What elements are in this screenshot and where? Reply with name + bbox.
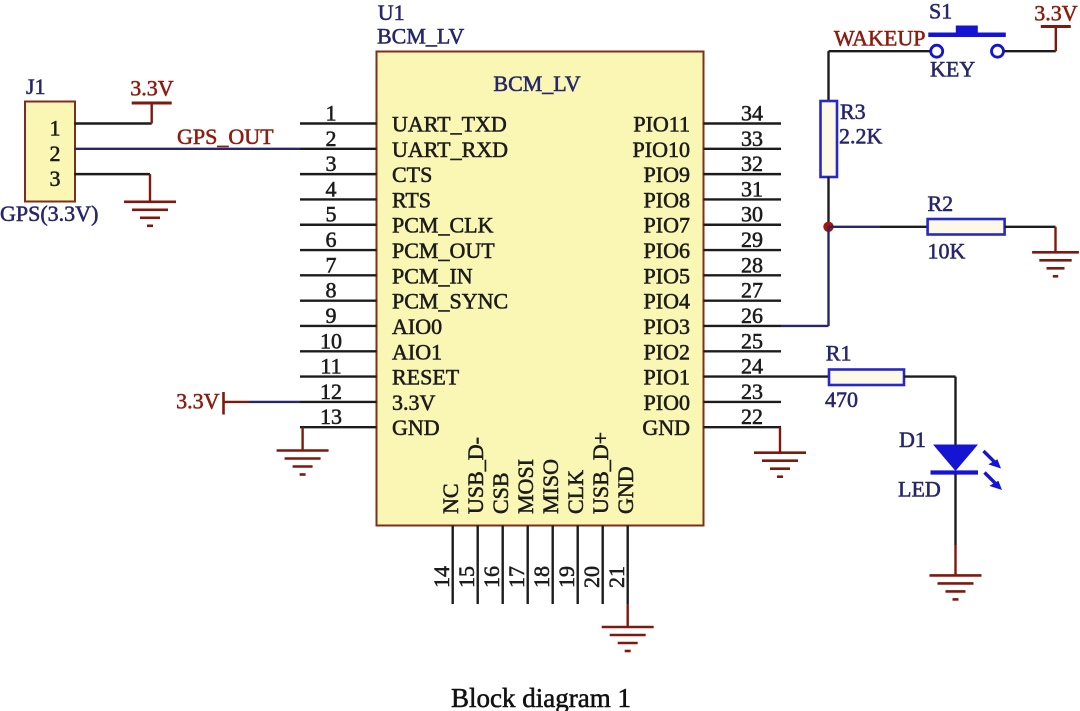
U1 pin 9 (AIO0) wire+number+name <box>300 303 442 339</box>
U1 pin 3 (CTS) wire+number+name <box>300 151 432 187</box>
net label 3.3V at S1 <box>1034 1 1078 26</box>
power symbol 3.3V at J1 <box>132 103 172 124</box>
svg-text:Block diagram 1: Block diagram 1 <box>451 683 631 711</box>
wire U1 pin22 down to ground <box>779 427 781 452</box>
svg-text:PIO11: PIO11 <box>633 112 690 137</box>
svg-text:PIO10: PIO10 <box>633 137 690 162</box>
svg-text:470: 470 <box>825 387 858 412</box>
wire R2 to ground <box>1005 227 1056 253</box>
resistor R3 value label 2.2K <box>839 124 883 149</box>
svg-text:25: 25 <box>741 328 763 353</box>
U1 pin 23 (PIO0) wire+number+name <box>644 379 781 415</box>
power symbol 3.3V at S1 <box>1041 25 1071 28</box>
svg-text:S1: S1 <box>929 0 952 24</box>
U1 pin 2 (UART_RXD) wire+number+name <box>300 126 508 162</box>
svg-text:UART_RXD: UART_RXD <box>392 137 508 162</box>
wire junction down to U1 pin26 (PIO3) <box>781 227 829 326</box>
svg-text:10: 10 <box>320 328 342 353</box>
U1 pin 15 (USB_D-) wire+number+name <box>454 437 488 604</box>
resistor R2 value label 10K <box>928 239 966 264</box>
svg-text:MISO: MISO <box>538 459 563 514</box>
svg-text:PIO6: PIO6 <box>644 238 690 263</box>
U1 pin 11 (RESET) wire+number+name <box>300 354 460 390</box>
wire U1 pin13 to ground <box>301 427 303 450</box>
svg-text:GND: GND <box>613 466 638 514</box>
svg-text:PCM_SYNC: PCM_SYNC <box>392 289 508 314</box>
wire J1 pin3 down to ground <box>149 174 151 202</box>
svg-text:18: 18 <box>529 566 554 588</box>
caption Block diagram 1 <box>451 683 631 711</box>
svg-text:2.2K: 2.2K <box>839 124 883 149</box>
svg-text:LED: LED <box>898 477 941 502</box>
svg-text:R2: R2 <box>928 191 954 216</box>
IC U1 body (BCM_LV) <box>377 52 704 526</box>
U1 pin 31 (PIO8) wire+number+name <box>644 176 781 212</box>
power symbol 3.3V at U1 pin12 <box>224 392 301 415</box>
svg-text:BCM_LV: BCM_LV <box>377 24 464 49</box>
svg-text:GPS(3.3V): GPS(3.3V) <box>0 201 98 226</box>
U1 pin 19 (CLK) wire+number+name <box>554 470 588 604</box>
net label 3.3V at U1 pin12 <box>176 389 220 414</box>
switch S1 symbol <box>928 26 1006 58</box>
U1 pin 25 (PIO2) wire+number+name <box>644 328 781 364</box>
U1 pin 16 (CSB) wire+number+name <box>479 472 513 604</box>
svg-text:15: 15 <box>454 566 479 588</box>
svg-text:22: 22 <box>741 404 763 429</box>
svg-text:RESET: RESET <box>392 365 460 390</box>
svg-text:30: 30 <box>741 202 763 227</box>
IC U1 internal title BCM_LV <box>493 71 580 96</box>
U1 pin 1 (UART_TXD) wire+number+name <box>300 101 507 137</box>
connector J1 pin 1 number <box>50 116 61 141</box>
svg-text:5: 5 <box>326 202 337 227</box>
switch S1 value label KEY <box>930 57 975 82</box>
U1 pin 14 (NC) wire+number+name <box>429 483 463 604</box>
U1 pin 6 (PCM_OUT) wire+number+name <box>300 227 495 263</box>
resistor R1 body <box>829 370 904 386</box>
wire WAKEUP down to R3 <box>827 51 829 101</box>
resistor R2 body <box>928 219 1005 235</box>
svg-text:PIO4: PIO4 <box>644 289 690 314</box>
connector J1 pin 2 number <box>50 141 61 166</box>
svg-text:3.3V: 3.3V <box>392 390 436 415</box>
svg-text:PCM_CLK: PCM_CLK <box>392 213 494 238</box>
svg-text:PCM_OUT: PCM_OUT <box>392 238 495 263</box>
resistor R3 body <box>821 101 838 177</box>
svg-text:27: 27 <box>741 278 763 303</box>
LED D1 refdes label <box>899 427 926 452</box>
svg-text:WAKEUP: WAKEUP <box>834 26 926 51</box>
U1 pin 7 (PCM_IN) wire+number+name <box>300 252 473 288</box>
U1 pin 20 (USB_D+) wire+number+name <box>579 432 613 604</box>
ground at J1 pin3 <box>124 202 176 226</box>
resistor R3 refdes label <box>840 99 866 124</box>
net label GPS_OUT <box>177 124 274 149</box>
U1 pin 22 (GND) wire+number+name <box>642 404 781 440</box>
svg-text:13: 13 <box>320 404 342 429</box>
ground at R2 <box>1032 252 1079 276</box>
svg-text:USB_D+: USB_D+ <box>588 432 613 514</box>
svg-text:PIO0: PIO0 <box>644 390 690 415</box>
IC U1 refdes label <box>378 0 405 25</box>
net label 3.3V at J1 <box>130 76 174 101</box>
svg-text:PIO9: PIO9 <box>644 162 690 187</box>
svg-text:NC: NC <box>438 483 463 514</box>
resistor R1 refdes label <box>826 341 852 366</box>
svg-text:R1: R1 <box>826 341 852 366</box>
svg-text:PIO7: PIO7 <box>644 213 690 238</box>
svg-text:9: 9 <box>326 303 337 328</box>
wire J1 pin1 to 3.3V power <box>74 122 151 124</box>
svg-text:1: 1 <box>50 116 61 141</box>
resistor R1 value label 470 <box>825 387 858 412</box>
ground at U1 pin21 <box>602 627 654 651</box>
svg-text:7: 7 <box>326 252 337 277</box>
svg-text:10K: 10K <box>928 239 966 264</box>
svg-text:23: 23 <box>741 379 763 404</box>
svg-text:34: 34 <box>741 101 763 126</box>
connector J1 pin 3 number <box>50 166 61 191</box>
wire J1 pin3 horizontal <box>74 173 150 175</box>
ground at U1 pin13 <box>277 451 329 475</box>
svg-text:R3: R3 <box>840 99 866 124</box>
svg-text:8: 8 <box>326 278 337 303</box>
net label WAKEUP <box>834 26 926 51</box>
wire R1 to D1 <box>904 377 956 445</box>
svg-text:28: 28 <box>741 252 763 277</box>
U1 pin 24 (PIO1) wire+number+name <box>644 354 781 390</box>
svg-text:D1: D1 <box>899 427 926 452</box>
LED D1 symbol <box>931 445 1003 491</box>
connector J1 value label GPS(3.3V) <box>0 201 98 226</box>
svg-text:6: 6 <box>326 227 337 252</box>
svg-text:3: 3 <box>50 166 61 191</box>
U1 pin 17 (MOSI) wire+number+name <box>504 459 538 604</box>
switch S1 refdes label <box>929 0 952 24</box>
svg-text:32: 32 <box>741 151 763 176</box>
svg-text:3: 3 <box>326 151 337 176</box>
svg-text:17: 17 <box>504 566 529 588</box>
svg-text:CSB: CSB <box>488 472 513 514</box>
svg-text:3.3V: 3.3V <box>130 76 174 101</box>
connector J1 refdes label <box>26 74 46 99</box>
svg-text:2: 2 <box>50 141 61 166</box>
svg-text:20: 20 <box>579 566 604 588</box>
svg-text:26: 26 <box>741 303 763 328</box>
ground at D1 <box>930 575 982 599</box>
wire junction to R2 <box>829 226 928 228</box>
wire S1 to 3.3V <box>1004 27 1056 51</box>
svg-text:PIO3: PIO3 <box>644 314 690 339</box>
svg-text:24: 24 <box>741 354 763 379</box>
U1 pin 33 (PIO10) wire+number+name <box>633 126 781 162</box>
svg-text:J1: J1 <box>26 74 46 99</box>
U1 pin 5 (PCM_CLK) wire+number+name <box>300 202 494 238</box>
svg-text:AIO0: AIO0 <box>392 314 442 339</box>
svg-text:PCM_IN: PCM_IN <box>392 263 473 288</box>
svg-text:U1: U1 <box>378 0 405 25</box>
U1 pin 4 (RTS) wire+number+name <box>300 176 431 212</box>
U1 pin 26 (PIO3) wire+number+name <box>644 303 781 339</box>
U1 pin 8 (PCM_SYNC) wire+number+name <box>300 278 508 314</box>
svg-text:AIO1: AIO1 <box>392 339 442 364</box>
svg-text:PIO5: PIO5 <box>644 263 690 288</box>
wire R3 to junction <box>827 177 829 227</box>
svg-text:GPS_OUT: GPS_OUT <box>177 124 274 149</box>
wire U1 pin24 to R1 <box>781 375 829 377</box>
wire WAKEUP net (left of S1) <box>829 50 931 52</box>
svg-text:19: 19 <box>554 566 579 588</box>
U1 pin 32 (PIO9) wire+number+name <box>644 151 781 187</box>
U1 pin 12 (3.3V) wire+number+name <box>300 379 436 415</box>
ground at U1 pin22 <box>754 453 806 477</box>
resistor R2 refdes label <box>928 191 954 216</box>
svg-text:3.3V: 3.3V <box>176 389 220 414</box>
LED D1 value label LED <box>898 477 941 502</box>
wire D1 to ground <box>954 474 956 575</box>
connector J1 body <box>25 102 75 202</box>
wire GPS_OUT net (J1 pin2 to U1 pin2) <box>74 148 300 150</box>
svg-text:29: 29 <box>741 227 763 252</box>
svg-text:PIO8: PIO8 <box>644 187 690 212</box>
IC U1 part-name label BCM_LV <box>377 24 464 49</box>
svg-text:PIO1: PIO1 <box>644 365 690 390</box>
svg-text:CLK: CLK <box>563 470 588 514</box>
U1 pin 18 (MISO) wire+number+name <box>529 459 563 604</box>
svg-text:RTS: RTS <box>392 187 431 212</box>
svg-text:CTS: CTS <box>392 162 432 187</box>
svg-text:1: 1 <box>326 101 337 126</box>
svg-text:21: 21 <box>604 566 629 588</box>
svg-text:11: 11 <box>320 354 341 379</box>
svg-text:MOSI: MOSI <box>513 459 538 514</box>
svg-text:UART_TXD: UART_TXD <box>392 112 507 137</box>
U1 pin 21 (GND) wire+number+name <box>604 466 638 627</box>
svg-text:16: 16 <box>479 566 504 588</box>
U1 pin 27 (PIO4) wire+number+name <box>644 278 781 314</box>
svg-text:2: 2 <box>326 126 337 151</box>
svg-text:33: 33 <box>741 126 763 151</box>
U1 pin 13 (GND) wire+number+name <box>300 404 440 440</box>
svg-text:USB_D-: USB_D- <box>463 437 488 514</box>
svg-text:PIO2: PIO2 <box>644 339 690 364</box>
svg-text:31: 31 <box>741 176 763 201</box>
junction node (R3/R2/PIO3) <box>823 222 833 232</box>
U1 pin 10 (AIO1) wire+number+name <box>300 328 442 364</box>
svg-text:12: 12 <box>320 379 342 404</box>
svg-text:4: 4 <box>326 176 337 201</box>
U1 pin 30 (PIO7) wire+number+name <box>644 202 781 238</box>
U1 pin 34 (PIO11) wire+number+name <box>633 101 781 137</box>
svg-text:BCM_LV: BCM_LV <box>493 71 580 96</box>
svg-text:GND: GND <box>392 415 440 440</box>
U1 pin 28 (PIO5) wire+number+name <box>644 252 781 288</box>
svg-text:KEY: KEY <box>930 57 975 82</box>
U1 pin 29 (PIO6) wire+number+name <box>644 227 781 263</box>
svg-text:3.3V: 3.3V <box>1034 1 1078 26</box>
svg-text:14: 14 <box>429 566 454 588</box>
svg-text:GND: GND <box>642 415 690 440</box>
